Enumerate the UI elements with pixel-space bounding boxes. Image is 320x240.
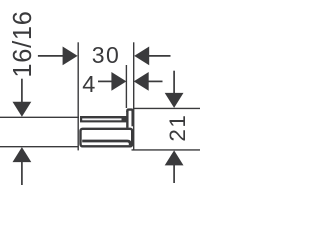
- svg-text:30: 30: [92, 42, 120, 68]
- extension line 30-dim right / wall face: [133, 42, 135, 150]
- arrowhead dim30 left (points right): [63, 47, 78, 66]
- extension line 4-dim left: [125, 65, 127, 108]
- arrowhead 21 lower (points up): [165, 150, 184, 165]
- dim 21 arrow stem lower: [173, 165, 175, 184]
- product top plate (solid band): [80, 116, 127, 122]
- arrowhead dim30 right (points left): [134, 47, 149, 66]
- dim 30 right arrow tail: [148, 55, 171, 57]
- extension line 30-dim left: [77, 42, 79, 150]
- svg-text:21: 21: [165, 114, 190, 142]
- dim 16/16 arrow stem upper: [21, 79, 23, 103]
- svg-text:16/16: 16/16: [9, 10, 37, 77]
- product hook arch top: [127, 110, 132, 112]
- arrowhead dim4 right (points left): [134, 72, 149, 91]
- svg-text:4: 4: [82, 71, 95, 97]
- dim 4 right arrow tail: [148, 80, 163, 82]
- dim 30 left arrow tail: [38, 55, 65, 57]
- dim 16/16 arrow stem lower: [21, 161, 23, 185]
- product hook left leg and descender: [126, 111, 128, 128]
- product inner bottom wall: [82, 141, 130, 145]
- arrowhead 16/16 upper (points down): [13, 102, 32, 117]
- product lower box (hollow): [81, 129, 133, 147]
- extension line 21-dim top: [134, 107, 200, 109]
- extension line bottom-left (16/16 lower): [0, 146, 78, 148]
- dim 21 arrow stem upper: [173, 71, 175, 94]
- product: wall bracket cross-section: [80, 110, 133, 147]
- product hook right leg: [131, 111, 133, 127]
- dim 4 left arrow tail: [98, 80, 113, 82]
- arrowhead dim4 left (points right): [111, 72, 126, 91]
- arrowhead 21 upper (points down): [165, 93, 184, 108]
- extension line 21-dim bottom: [132, 149, 201, 151]
- extension line top-left (16/16 upper): [0, 116, 79, 118]
- product top plate inner cavity: [82, 118, 121, 120]
- arrowhead 16/16 lower (points up): [13, 147, 32, 162]
